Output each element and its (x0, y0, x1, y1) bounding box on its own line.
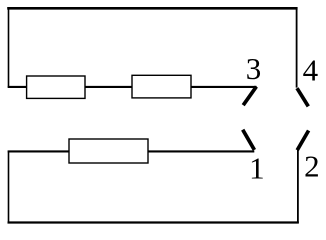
svg-text:4: 4 (303, 53, 319, 88)
svg-text:3: 3 (246, 51, 261, 86)
svg-text:1: 1 (249, 150, 265, 185)
svg-text:2: 2 (304, 149, 320, 184)
